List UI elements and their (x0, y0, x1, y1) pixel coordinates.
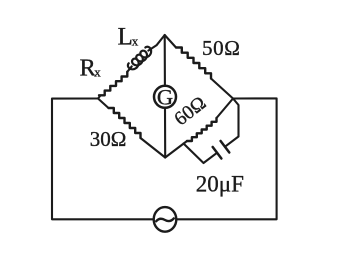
svg-text:x: x (94, 65, 101, 80)
svg-text:20μF: 20μF (196, 171, 244, 196)
svg-text:G: G (157, 84, 173, 109)
svg-text:50Ω: 50Ω (202, 36, 240, 60)
svg-text:L: L (118, 23, 133, 50)
svg-text:30Ω: 30Ω (90, 127, 127, 151)
svg-text:x: x (132, 34, 139, 49)
